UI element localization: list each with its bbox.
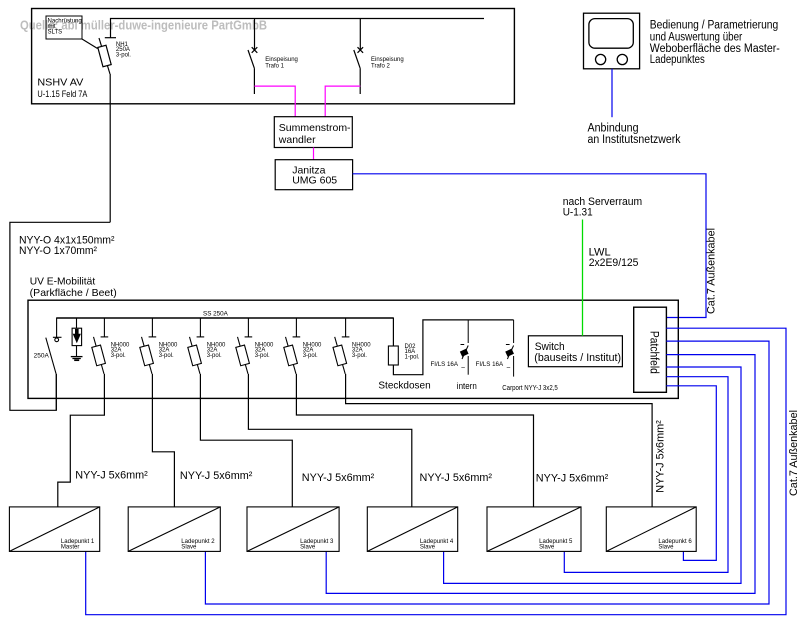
network wire Janitza to Patchfeld (blue) [353, 174, 706, 318]
svg-text:~: ~ [506, 365, 510, 372]
svg-text:Anbindung: Anbindung [588, 123, 639, 135]
main switch 250A [46, 318, 62, 411]
wire Summenstromwandler to Janitza (magenta) [313, 148, 315, 160]
svg-text:und Auswertung über: und Auswertung über [650, 31, 743, 43]
charge point Ladepunkt 3 Slave box [247, 507, 339, 552]
breaker Einspeisung Trafo 1 [248, 19, 257, 95]
feed wire to Ladepunkt 5 [296, 374, 533, 507]
svg-text:Master: Master [61, 544, 79, 550]
svg-text:SS 250A: SS 250A [203, 311, 229, 318]
data wire patch port7 to Ladepunkt 6 (blue) [666, 386, 716, 561]
fuse NH000 group 5 [284, 318, 300, 374]
charge point Ladepunkt 5 Slave box [487, 507, 581, 552]
fuse NH000 group 6 [333, 318, 349, 374]
svg-text:Bedienung / Parametrierung: Bedienung / Parametrierung [650, 19, 778, 31]
NSHV AV enclosure box [32, 9, 515, 104]
Nachrüstung mit SLTS box [46, 16, 82, 39]
RCBO FI/LS 16A intern [461, 320, 469, 375]
svg-text:Slave: Slave [658, 544, 674, 550]
svg-text:NYY-J 5x6mm²: NYY-J 5x6mm² [420, 472, 493, 484]
monitor icon (Bedienung) [584, 13, 640, 69]
svg-text:(Parkfläche / Beet): (Parkfläche / Beet) [30, 287, 117, 299]
svg-text:3-pol.: 3-pol. [207, 353, 222, 359]
svg-text:U-1.15 Feld 7A: U-1.15 Feld 7A [37, 89, 88, 100]
fuse NH000 group 1 [92, 318, 108, 374]
svg-text:1-pol.: 1-pol. [405, 354, 420, 360]
ground symbol [71, 357, 83, 361]
svg-text:UMG 605: UMG 605 [292, 175, 337, 187]
feed wire to Ladepunkt 1 [58, 374, 105, 507]
UV E-Mobilität enclosure box [28, 300, 678, 398]
svg-text:Einspeisung: Einspeisung [265, 57, 298, 63]
CT measuring wire trafo2 (magenta) [325, 86, 360, 117]
svg-text:Summenstrom-: Summenstrom- [279, 122, 351, 134]
svg-text:NSHV AV: NSHV AV [37, 76, 83, 88]
busbar SS 250A [57, 317, 394, 319]
svg-text:Slave: Slave [420, 544, 436, 550]
svg-text:Carport NYY-J 3x2,5: Carport NYY-J 3x2,5 [502, 383, 558, 392]
svg-text:3-pol.: 3-pol. [255, 353, 270, 359]
svg-text:2x2E9/125: 2x2E9/125 [589, 257, 639, 269]
svg-text:3-pol.: 3-pol. [159, 353, 174, 359]
svg-text:NYY-O 1x70mm²: NYY-O 1x70mm² [19, 245, 97, 257]
svg-text:Slave: Slave [181, 544, 197, 550]
feed wire NSHV to UV panel [10, 222, 110, 410]
CT measuring wire trafo1 (magenta) [254, 86, 295, 117]
svg-text:Slave: Slave [300, 544, 316, 550]
network wire monitor down (blue) [611, 69, 613, 117]
data wire patch port2 to Ladepunkt 1 (blue) [86, 328, 786, 615]
svg-text:Einspeisung: Einspeisung [371, 57, 404, 63]
fuse NH000 group 2 [140, 318, 156, 374]
fuse NH000 group 4 [236, 318, 252, 374]
charge point Ladepunkt 1 Master box [9, 507, 99, 552]
feed wire to Ladepunkt 6 [346, 374, 652, 507]
svg-text:FI/LS 16A: FI/LS 16A [476, 361, 504, 368]
svg-text:~: ~ [461, 365, 465, 372]
LWL wire (green) [582, 220, 584, 336]
fuse NH1 (fuse switch disconnector) [98, 38, 116, 74]
data wire patch port4 to Ladepunkt 3 (blue) [326, 355, 755, 594]
svg-text:an Institutsnetzwerk: an Institutsnetzwerk [588, 134, 681, 146]
Patchfeld box [634, 307, 667, 392]
feed wire to Ladepunkt 4 [248, 374, 411, 507]
svg-text:Weboberfläche des Master-: Weboberfläche des Master- [650, 43, 780, 55]
svg-text:Trafo 1: Trafo 1 [265, 63, 284, 69]
breaker Einspeisung Trafo 2 [354, 19, 363, 95]
svg-text:250A: 250A [34, 353, 50, 360]
svg-text:U-1.31: U-1.31 [563, 207, 593, 219]
svg-text:(bauseits / Institut): (bauseits / Institut) [534, 352, 621, 364]
pointer line from SLTS box to fuse NH1 [82, 39, 98, 49]
svg-text:Cat.7 Außenkabel: Cat.7 Außenkabel [788, 410, 800, 496]
Switch (bauseits / Institut) box [528, 336, 622, 367]
feed wire to Ladepunkt 2 [152, 374, 174, 507]
svg-text:wandler: wandler [278, 134, 316, 146]
svg-text:intern: intern [457, 381, 477, 391]
RCBO FI/LS 16A Carport [506, 320, 514, 377]
data wire patch port3 to Ladepunkt 2 (blue) [205, 341, 769, 604]
svg-text:Trafo 2: Trafo 2 [371, 63, 390, 69]
fuse NH000 group 3 [188, 318, 204, 374]
charge point Ladepunkt 6 Slave box [606, 507, 696, 552]
Summenstromwandler box [274, 117, 352, 148]
charge point Ladepunkt 4 Slave box [367, 507, 457, 552]
meter Janitza UMG 605 box [275, 160, 352, 190]
fuse D02 16A and Steckdosen sub-circuit wire [392, 318, 394, 347]
surge protection device [72, 318, 82, 357]
svg-text:NYY-J 5x6mm²: NYY-J 5x6mm² [75, 469, 148, 481]
svg-text:3-pol.: 3-pol. [352, 353, 367, 359]
wire NH1 output down [109, 74, 111, 222]
svg-text:3-pol.: 3-pol. [116, 52, 131, 58]
data wire patch port6 to Ladepunkt 5 (blue) [564, 377, 728, 573]
svg-text:3-pol.: 3-pol. [303, 353, 318, 359]
data wire patch port5 to Ladepunkt 4 (blue) [444, 367, 741, 583]
svg-text:Patchfeld: Patchfeld [648, 331, 660, 374]
svg-text:Ladepunktes: Ladepunktes [650, 54, 705, 66]
svg-text:NYY-J 5x6mm²: NYY-J 5x6mm² [536, 473, 609, 485]
svg-text:NYY-J 5x6mm²: NYY-J 5x6mm² [655, 420, 667, 493]
svg-text:Steckdosen: Steckdosen [378, 381, 430, 392]
svg-text:NYY-J 5x6mm²: NYY-J 5x6mm² [180, 470, 253, 482]
svg-text:FI/LS 16A: FI/LS 16A [431, 361, 459, 368]
svg-text:NYY-J 5x6mm²: NYY-J 5x6mm² [302, 472, 375, 484]
charge point Ladepunkt 2 Slave box [128, 507, 220, 552]
feed wire to Ladepunkt 3 [200, 374, 292, 507]
svg-text:3-pol.: 3-pol. [111, 353, 126, 359]
svg-text:Slave: Slave [539, 544, 555, 550]
svg-text:Cat.7 Außenkabel: Cat.7 Außenkabel [706, 228, 718, 314]
NSHV inner bus wire [111, 19, 485, 38]
svg-text:SLTS: SLTS [48, 29, 63, 35]
